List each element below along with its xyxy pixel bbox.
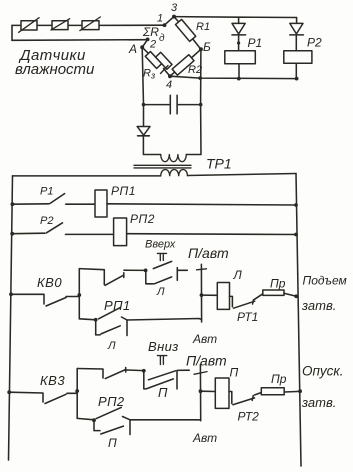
selector П/авт rung3: [188, 245, 229, 346]
sensor resistor 2: [51, 19, 70, 30]
svg-text:Л: Л: [107, 340, 116, 352]
contact Р2: [10, 215, 113, 236]
svg-text:КВ3: КВ3: [40, 373, 65, 388]
resistor Rз: [142, 47, 172, 80]
svg-text:влажности: влажности: [15, 61, 95, 78]
contact КВ0: [9, 275, 79, 306]
contact Р1: [11, 186, 96, 207]
wire node 4 to relay bottoms: [170, 76, 299, 80]
relay coil Р1: [225, 36, 262, 79]
contact П lower rung4: [94, 420, 130, 450]
svg-text:КВ0: КВ0: [37, 275, 62, 290]
junction column rung3: [77, 269, 81, 319]
wire terminal 1 to node 3: [164, 17, 174, 26]
svg-text:Р2: Р2: [40, 215, 53, 227]
svg-text:R2: R2: [188, 64, 202, 76]
wire rung1 right: [107, 203, 298, 207]
left rail: [9, 176, 13, 460]
svg-text:РТ2: РТ2: [238, 410, 260, 424]
svg-text:R: R: [143, 68, 151, 80]
node branch rung3: [144, 269, 148, 273]
resistor R1: [174, 17, 210, 50]
wire sensor chain left end: [11, 25, 13, 40]
contact РП1 rung3: [79, 298, 130, 322]
svg-text:з: з: [150, 71, 155, 81]
right rail: [296, 174, 301, 467]
node 1: [157, 13, 166, 28]
wire node A down: [142, 47, 146, 126]
node A: [128, 42, 144, 56]
svg-text:А: А: [128, 42, 137, 56]
svg-text:П: П: [108, 436, 117, 450]
relay coil Р2: [284, 36, 322, 79]
svg-text:П: П: [230, 366, 239, 380]
resistor R2: [170, 49, 202, 76]
top rail: [13, 174, 297, 176]
label Опуск. затв.: [301, 364, 344, 411]
svg-text:Р1: Р1: [40, 186, 53, 198]
contact КВ3: [7, 373, 77, 404]
svg-text:3: 3: [171, 2, 178, 14]
svg-text:д: д: [159, 33, 165, 44]
wire capacitor line right down to transformer: [186, 105, 201, 155]
wire branch to selector rung4: [130, 419, 201, 421]
contact Л lower rung3: [96, 320, 127, 352]
svg-text:4: 4: [166, 79, 172, 91]
pushbutton Вверх: [145, 239, 176, 269]
svg-text:РП1: РП1: [111, 184, 136, 198]
wire rung2 right: [127, 233, 298, 237]
contact РП2 rung4: [77, 394, 130, 422]
wire sensor chain top: [12, 24, 164, 26]
contact РТ1: [230, 294, 263, 324]
svg-text:Л: Л: [156, 286, 165, 298]
wire sensor chain bottom: [12, 39, 147, 42]
svg-text:затв.: затв.: [301, 395, 336, 410]
fuse Пр rung3: [263, 277, 298, 299]
node branch rung4: [142, 369, 146, 373]
contact РТ2: [229, 392, 261, 424]
diode VD2: [290, 18, 304, 51]
svg-text:РП2: РП2: [98, 394, 125, 409]
svg-text:П/авт: П/авт: [188, 245, 229, 261]
svg-text:2: 2: [149, 39, 156, 51]
label ΣRд: [142, 25, 165, 44]
relay coil Л: [202, 268, 243, 309]
wire branch to selector rung3: [127, 319, 202, 321]
pushbutton Вниз: [148, 339, 179, 380]
svg-text:ΣR: ΣR: [142, 25, 159, 39]
svg-text:Вверх: Вверх: [145, 239, 176, 251]
svg-text:1: 1: [157, 13, 163, 25]
svg-text:Л: Л: [233, 268, 243, 282]
svg-text:Авт: Авт: [192, 332, 217, 346]
transformer core: [134, 165, 191, 168]
svg-text:R1: R1: [196, 21, 210, 33]
svg-text:Б: Б: [203, 40, 211, 54]
node 3: [171, 2, 178, 19]
svg-text:Р2: Р2: [307, 36, 322, 50]
node Б: [199, 40, 211, 54]
label Подъем затв.: [301, 274, 347, 314]
diode VD3: [137, 127, 161, 155]
svg-text:Пр: Пр: [270, 277, 286, 291]
transformer ТР1 primary: [161, 155, 187, 162]
wire terminal 2 to node A: [142, 40, 147, 48]
svg-text:РП1: РП1: [104, 298, 131, 313]
svg-text:Р1: Р1: [248, 36, 263, 50]
relay coil РП1: [95, 184, 136, 217]
selector П/авт rung4: [186, 353, 227, 446]
svg-text:П: П: [158, 385, 168, 400]
sensor resistor 3: [80, 17, 100, 31]
fuse Пр rung4: [261, 372, 302, 395]
svg-text:затв.: затв.: [301, 298, 336, 313]
node 4: [166, 74, 172, 91]
label Датчики влажности: [15, 47, 95, 78]
contact П parallel rung4: [144, 370, 189, 400]
junction column rung4: [75, 369, 79, 419]
diode VD1: [232, 17, 246, 44]
svg-text:Опуск.: Опуск.: [302, 364, 344, 379]
sensor resistor 1: [19, 18, 39, 33]
svg-text:П/авт: П/авт: [186, 353, 227, 369]
relay coil П: [201, 366, 239, 409]
svg-text:РП2: РП2: [130, 212, 155, 226]
relay coil РП2: [114, 212, 155, 246]
capacitor C1: [144, 95, 201, 114]
contact aux upper rung3: [79, 269, 145, 286]
contact aux upper rung4: [77, 368, 144, 379]
wire node 3 to diode branches: [174, 16, 297, 19]
transformer ТР1 secondary: [161, 169, 188, 175]
contact Л parallel rung3: [146, 268, 188, 298]
node 2: [146, 38, 156, 51]
wire node Б down to capacitor line: [199, 49, 203, 106]
svg-text:Вниз: Вниз: [148, 339, 179, 354]
svg-text:Пр: Пр: [271, 372, 287, 386]
svg-text:ТР1: ТР1: [206, 156, 232, 172]
svg-text:Подъем: Подъем: [303, 274, 347, 288]
svg-text:РТ1: РТ1: [237, 310, 258, 324]
svg-text:Авт: Авт: [192, 431, 217, 445]
